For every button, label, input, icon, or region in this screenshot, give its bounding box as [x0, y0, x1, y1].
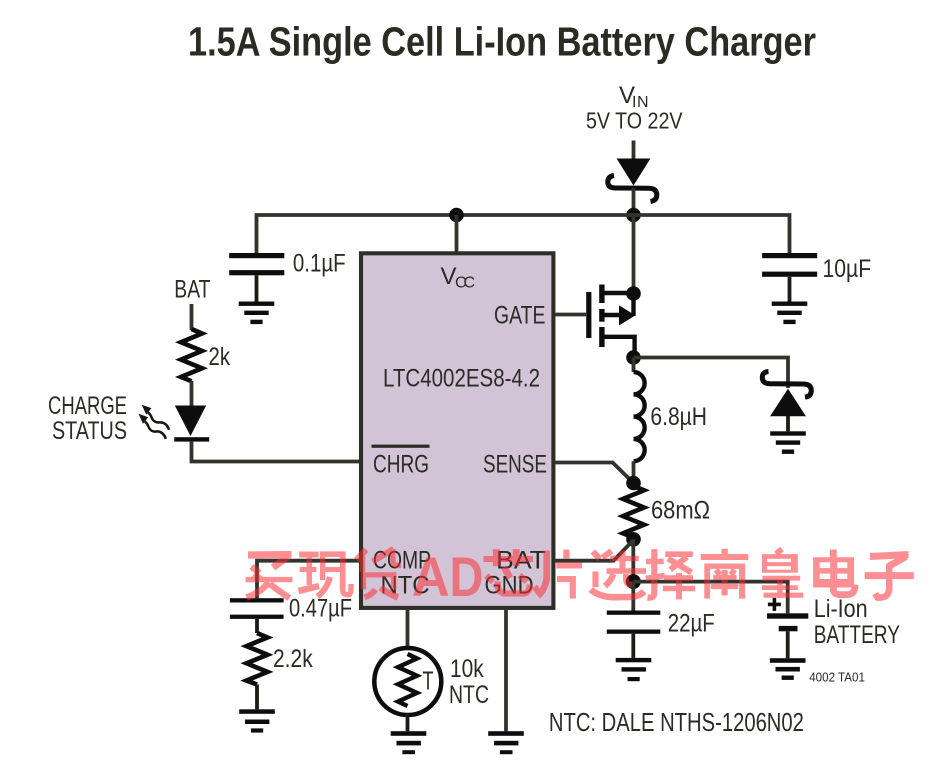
ground (C2) [772, 302, 808, 325]
watermark (red, semi-transparent) [246, 545, 914, 608]
wire rail to Q1 drain [632, 215, 636, 293]
svg-text:BAT: BAT [174, 276, 210, 304]
wire NTC pin down [406, 610, 410, 650]
svg-text:NTC: NTC [449, 681, 489, 709]
svg-text:SENSE: SENSE [483, 451, 547, 479]
watermark glyph 4 [484, 549, 541, 594]
LED D3 (charge status) [139, 405, 210, 442]
svg-text:BATTERY: BATTERY [814, 621, 901, 649]
svg-text:22µF: 22µF [668, 610, 715, 638]
svg-text:5V TO 22V: 5V TO 22V [586, 108, 683, 134]
svg-text:T: T [423, 666, 434, 696]
wire VIN down [632, 141, 636, 161]
wire switch node to catch diode [634, 358, 789, 373]
pin CHRG label (overlined) [372, 445, 430, 479]
svg-text:STATUS: STATUS [52, 417, 127, 445]
junction dot below R3 [626, 532, 641, 547]
watermark glyph 8 [701, 549, 749, 599]
pin VCC label [441, 263, 476, 292]
battery BT1 Li-Ion [767, 598, 808, 658]
capacitor C4 22uF [607, 582, 661, 658]
junction dot VIN-rail [626, 208, 641, 223]
wire BAT label to R1 [190, 304, 194, 330]
inductor L1 6.8uH [634, 358, 645, 484]
ground (C4) [616, 658, 652, 681]
junction dot rail-VCC [449, 208, 464, 223]
watermark glyph 11 [865, 555, 914, 598]
svg-text:NTC: DALE NTHS-1206N02: NTC: DALE NTHS-1206N02 [549, 707, 804, 737]
svg-text:CHARGE: CHARGE [48, 392, 127, 420]
ground (D2) [770, 431, 806, 454]
diode D1 (input Schottky, VIN to rail) [608, 159, 657, 216]
watermark glyph 7 [646, 549, 696, 599]
svg-text:2.2k: 2.2k [273, 645, 313, 673]
svg-text:68mΩ: 68mΩ [651, 497, 710, 525]
resistor R1 2k [181, 329, 202, 381]
svg-text:CHRG: CHRG [373, 451, 429, 479]
ground (R2) [239, 709, 275, 732]
wire R1 to LED [190, 381, 194, 406]
ground (C1) [239, 302, 275, 325]
svg-text:10µF: 10µF [823, 255, 872, 283]
thermistor RT1 (10k NTC) [374, 648, 441, 731]
capacitor C3 0.47uF [230, 598, 284, 619]
label Li-Ion BATTERY [814, 595, 901, 649]
watermark glyph 10 [813, 550, 855, 595]
wire node down [631, 539, 635, 581]
watermark glyph 1 [246, 555, 293, 599]
svg-text:D: D [450, 545, 484, 608]
wire SENSE pin to node [556, 463, 634, 484]
ground (GND pin) [488, 731, 524, 754]
svg-text:A: A [412, 545, 450, 608]
wire LED cathode to CHRG pin [192, 442, 360, 462]
svg-text:0.47µF: 0.47µF [289, 595, 352, 623]
op-amp U1 LTC4002ES8-4.2 (IC block) [361, 253, 553, 608]
ground (battery) [770, 658, 806, 680]
watermark glyph 2 [299, 552, 352, 597]
svg-text:2k: 2k [209, 343, 231, 371]
label CHARGE STATUS [48, 392, 127, 445]
junction dot battery node [626, 574, 641, 589]
svg-text:GATE: GATE [494, 302, 546, 330]
svg-text:CC: CC [455, 275, 475, 292]
svg-text:4002 TA01: 4002 TA01 [809, 671, 865, 685]
wire BAT pin to node [556, 540, 634, 561]
watermark glyph 3 [357, 549, 401, 598]
wire GND pin down [504, 610, 508, 731]
wire COMP pin to C3 [257, 561, 359, 599]
ground (RT1) [391, 731, 427, 754]
svg-text:10k: 10k [450, 655, 484, 683]
resistor R3 68mOhm [623, 483, 644, 539]
svg-text:Li-Ion: Li-Ion [814, 595, 868, 623]
svg-text:1.5A Single Cell Li-Ion Batter: 1.5A Single Cell Li-Ion Battery Charger [188, 19, 816, 65]
diode D2 (catch Schottky to ground) [762, 372, 811, 432]
wire VCC stub [455, 215, 459, 252]
watermark glyph 6 [591, 551, 646, 597]
resistor R2 2.2k [247, 619, 268, 709]
wire battery branch [633, 582, 787, 614]
svg-text:6.8µH: 6.8µH [650, 403, 707, 431]
node VIN label [586, 82, 683, 134]
junction dot switch node [626, 350, 641, 365]
watermark glyph 5 [538, 550, 582, 599]
svg-text:LTC4002ES8-4.2: LTC4002ES8-4.2 [383, 365, 540, 393]
capacitor C2 10uF [762, 253, 817, 302]
label 10k NTC [449, 655, 489, 709]
capacitor C1 0.1uF [229, 253, 284, 302]
watermark glyph 9 [762, 549, 803, 598]
wire top rail [257, 215, 790, 253]
watermark letters AD [412, 545, 484, 608]
transistor Q1 (PMOS) [586, 285, 635, 358]
junction dot SENSE node [626, 476, 641, 491]
svg-text:0.1µF: 0.1µF [293, 249, 346, 277]
junction dot Q1 drain [626, 286, 641, 301]
wire GATE pin [556, 313, 587, 317]
